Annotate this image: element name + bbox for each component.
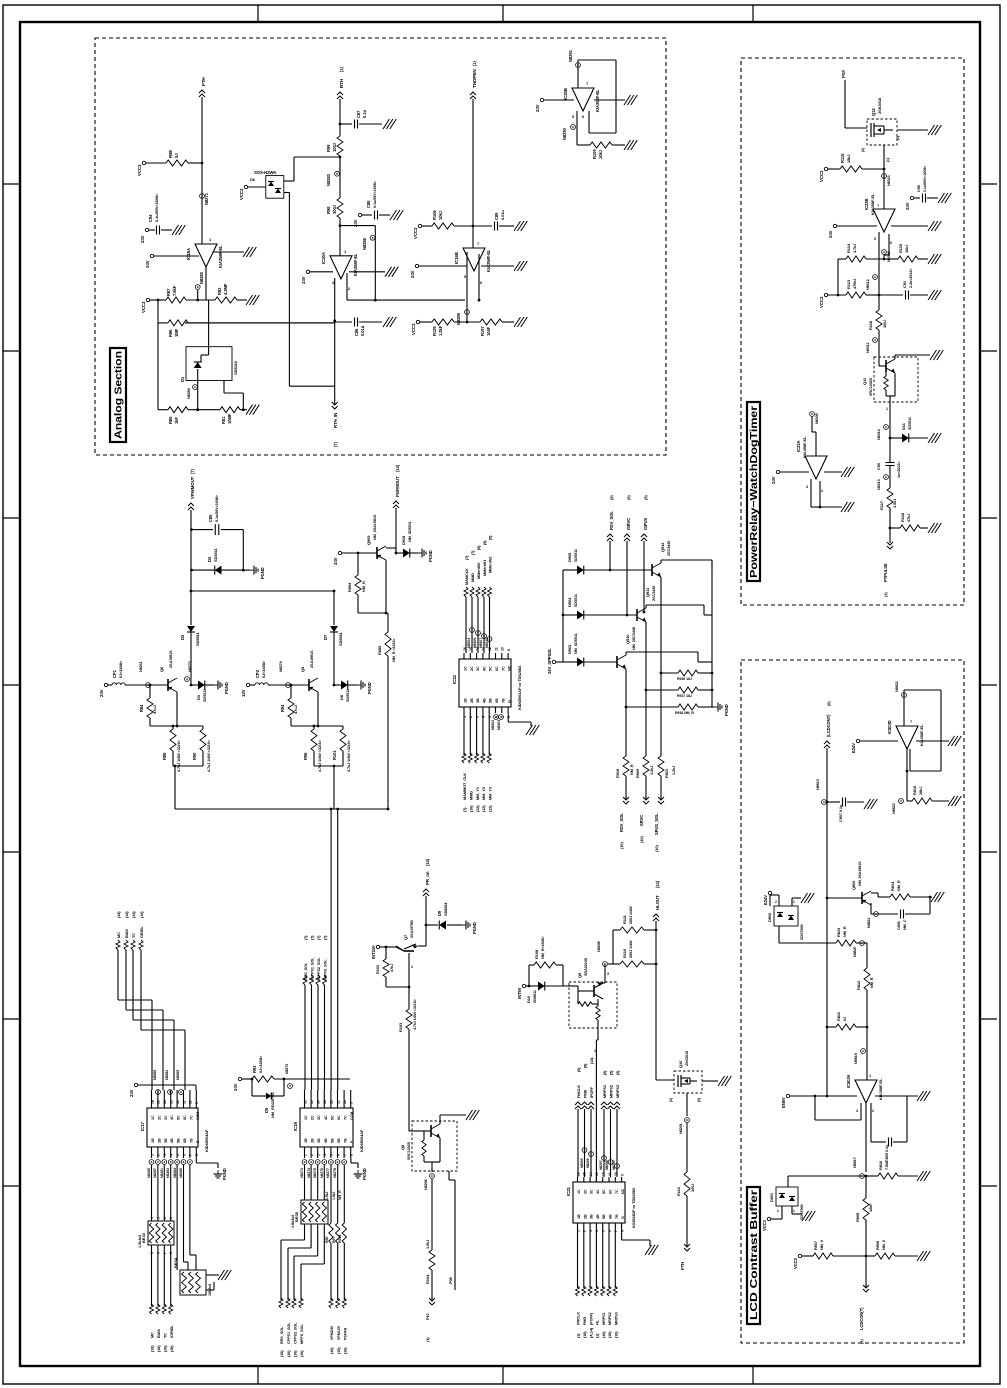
svg-text:1B: 1B <box>464 698 468 703</box>
ground PGND D3 <box>214 684 218 686</box>
node N8291 <box>576 63 581 68</box>
ground D11 <box>928 433 935 443</box>
svg-text:2: 2 <box>157 1154 161 1156</box>
node N8818 <box>866 1026 869 1029</box>
svg-text:24V: 24V <box>905 202 910 210</box>
svg-text:BIAS: BIAS <box>124 929 129 938</box>
svg-text:12kF: 12kF <box>868 1203 873 1212</box>
svg-text:N8280: N8280 <box>187 388 191 399</box>
wire 24V to IC23A <box>776 470 779 473</box>
resistor R108 <box>528 965 530 986</box>
svg-text:IPOFF: IPOFF <box>589 1086 594 1098</box>
svg-text:24V: 24V <box>828 230 833 238</box>
svg-text:BR34: BR34 <box>173 1257 178 1268</box>
wire IC23A pin loop <box>810 479 812 507</box>
svg-text:R111: R111 <box>622 914 627 924</box>
terminal VCC3 D801 <box>767 1217 770 1220</box>
svg-text:NM_R: NM_R <box>361 581 366 592</box>
capacitor C805 <box>888 1138 890 1147</box>
svg-text:1.5kJ: 1.5kJ <box>892 499 897 508</box>
ground C91 <box>928 290 935 300</box>
svg-text:MMenW0: MMenW0 <box>476 563 481 579</box>
svg-text:R86: R86 <box>168 329 173 337</box>
transistor Q802 <box>826 897 829 900</box>
svg-text:SRA2210S: SRA2210S <box>584 957 588 976</box>
svg-text:N8287: N8287 <box>153 1168 157 1178</box>
svg-text:(10): (10) <box>615 1331 619 1338</box>
wire Q7 base <box>408 953 410 1009</box>
svg-text:10: 10 <box>189 1100 193 1104</box>
svg-text:12: 12 <box>488 647 492 651</box>
svg-text:FTH: FTH <box>680 1262 685 1270</box>
wire Q5 collector <box>317 692 319 726</box>
svg-text:5C: 5C <box>330 1115 334 1120</box>
svg-text:PS#: PS# <box>841 69 846 78</box>
resistor R86 <box>158 322 168 324</box>
svg-text:Q11: Q11 <box>862 377 867 385</box>
wire Q911 collector <box>645 605 647 608</box>
svg-text:1.8kJx4: 1.8kJx4 <box>291 1214 295 1228</box>
svg-text:1: 1 <box>576 1230 580 1232</box>
svg-text:ICPPS2_SOL: ICPPS2_SOL <box>317 957 321 980</box>
svg-text:12V: 12V <box>241 689 246 697</box>
svg-text:11: 11 <box>494 647 498 651</box>
svg-text:N8272: N8272 <box>285 1064 289 1074</box>
svg-text:15kJ: 15kJ <box>846 155 851 164</box>
transistor Q911 <box>636 609 638 621</box>
node N8817 <box>860 1174 865 1179</box>
svg-text:(10): (10) <box>330 1347 334 1354</box>
connector P10 <box>429 1302 435 1305</box>
svg-text:R916 18J: R916 18J <box>677 677 692 681</box>
node N8304 group <box>470 628 475 633</box>
connector ISRVC top <box>624 534 630 537</box>
svg-text:N8271: N8271 <box>204 192 209 205</box>
svg-text:LCDCON(T): LCDCON(T) <box>859 1307 864 1330</box>
wire R99 to SOS box <box>294 156 340 158</box>
svg-text:0.1u/50V<1608>: 0.1u/50V<1608> <box>373 180 377 208</box>
svg-text:4.7uJ 1/4W <3216>: 4.7uJ 1/4W <3216> <box>318 739 322 772</box>
resistor R917 <box>678 687 698 693</box>
resistor R103 <box>406 1009 412 1029</box>
frame tick right 6 <box>980 1018 997 1020</box>
wire Q912 collector <box>660 560 662 563</box>
svg-text:KID65004AF: KID65004AF <box>204 1129 209 1152</box>
wire N8817 to D801 <box>788 1175 866 1177</box>
svg-text:KID65004AF: KID65004AF <box>359 1129 364 1152</box>
resistor Q8 internal <box>423 1131 425 1140</box>
svg-text:9: 9 <box>620 1174 624 1176</box>
resistor R88 <box>142 161 145 164</box>
svg-text:3: 3 <box>332 281 334 285</box>
wires RRS group down <box>304 985 306 1090</box>
resistor R813 <box>779 942 836 944</box>
svg-text:2: 2 <box>872 1109 874 1113</box>
frame tick left 5 <box>3 851 20 853</box>
MOSFET Q10 <box>677 1075 679 1087</box>
svg-text:N8291: N8291 <box>568 49 573 62</box>
svg-text:(10): (10) <box>170 1345 174 1352</box>
svg-text:(10): (10) <box>293 1350 297 1357</box>
svg-text:24V: 24V <box>410 270 415 278</box>
svg-text:IC19: IC19 <box>293 1121 298 1131</box>
svg-text:R814: R814 <box>890 881 895 891</box>
svg-text:D10: D10 <box>526 995 531 1003</box>
svg-text:2B: 2B <box>470 698 474 703</box>
svg-text:0.01u: 0.01u <box>500 210 505 220</box>
svg-text:2SK3018: 2SK3018 <box>877 97 882 114</box>
svg-text:R116: R116 <box>868 320 873 330</box>
svg-text:7C: 7C <box>501 666 505 671</box>
svg-text:3: 3 <box>475 716 479 718</box>
frame tick left 7 <box>3 1185 20 1187</box>
svg-text:2: 2 <box>583 1230 587 1232</box>
svg-text:0.1u/50V<1608>: 0.1u/50V<1608> <box>923 166 927 192</box>
svg-text:R94: R94 <box>280 704 285 712</box>
op-amp IC16B <box>463 248 485 271</box>
diode D905 <box>563 569 577 571</box>
wire R103 to Q8 <box>408 1029 410 1131</box>
ground C87 <box>383 119 390 129</box>
resistor R98 <box>339 157 341 198</box>
resistor R854 <box>357 553 359 575</box>
svg-text:VFM12V: VFM12V <box>337 1325 341 1340</box>
ground C89 <box>514 221 521 231</box>
svg-text:(5): (5) <box>626 495 631 500</box>
svg-text:10kJ: 10kJ <box>904 245 909 253</box>
svg-text:13: 13 <box>482 647 486 651</box>
svg-text:IC16B: IC16B <box>454 252 459 264</box>
svg-text:1C: 1C <box>304 1115 308 1120</box>
resistor Q11 internal <box>885 366 887 376</box>
svg-text:N8303: N8303 <box>497 720 501 730</box>
svg-text:MAMMOT_CLK: MAMMOT_CLK <box>462 773 467 800</box>
svg-text:GRIDL: GRIDL <box>139 926 144 938</box>
svg-text:CP2: CP2 <box>255 669 260 678</box>
wires to bottom connectors <box>625 776 627 800</box>
wire to Q10 <box>655 964 657 1080</box>
svg-text:D11: D11 <box>901 422 906 430</box>
svg-text:1: 1 <box>594 1049 596 1053</box>
node N8283 <box>335 171 340 176</box>
svg-text:MM_Y1: MM_Y1 <box>475 786 480 800</box>
node N8289 <box>465 310 470 315</box>
svg-text:12: 12 <box>330 1100 334 1104</box>
connector RSV_SOL top <box>607 534 613 537</box>
svg-text:3C: 3C <box>317 1115 321 1120</box>
svg-text:(10): (10) <box>608 1331 612 1338</box>
capacitor C90 <box>910 196 913 199</box>
diode D1 <box>194 362 202 368</box>
svg-text:MAMCLK: MAMCLK <box>464 568 469 585</box>
op-amp IC23B <box>873 209 895 232</box>
ground R109 <box>624 140 631 150</box>
svg-text:N8208: N8208 <box>597 941 601 952</box>
svg-text:1.5kJx4: 1.5kJx4 <box>138 1234 142 1248</box>
node N8261 <box>146 683 151 688</box>
svg-text:3B: 3B <box>317 1138 321 1143</box>
frame tick left 4 <box>3 684 20 686</box>
svg-text:2SA1981S: 2SA1981S <box>310 650 314 668</box>
svg-text:TC: TC <box>163 1333 168 1338</box>
svg-text:Q911: Q911 <box>645 587 650 597</box>
svg-text:PR_on: PR_on <box>425 871 430 885</box>
svg-text:Q6: Q6 <box>159 666 164 672</box>
ground D801 <box>791 1206 793 1214</box>
diode D11 <box>889 437 892 440</box>
svg-text:Q912: Q912 <box>660 542 665 552</box>
terminal 24V IC17 <box>134 1083 137 1086</box>
svg-text:(10): (10) <box>287 1350 291 1357</box>
capacitor C86 <box>335 321 352 323</box>
svg-text:6C: 6C <box>609 1189 613 1194</box>
svg-text:N8296: N8296 <box>586 1158 590 1168</box>
svg-text:IC803D: IC803D <box>887 720 892 734</box>
wire IC17 ground <box>195 1158 197 1163</box>
svg-text:7: 7 <box>877 204 879 208</box>
wire loop left vertical <box>174 765 177 768</box>
wire PR_on down <box>425 896 427 946</box>
svg-text:SD5511: SD5511 <box>195 631 200 646</box>
ground PGND D8 <box>357 684 361 686</box>
wire Q11 emitter <box>894 373 896 396</box>
frame tick right 3 <box>980 517 997 519</box>
svg-text:R115: R115 <box>840 153 845 163</box>
svg-text:4C: 4C <box>324 1115 328 1120</box>
wire node to IC18A <box>201 163 203 244</box>
wire IC25B feedback <box>577 68 579 88</box>
svg-text:N8302: N8302 <box>491 720 495 730</box>
svg-text:4.7uJ 1/4W <3216>: 4.7uJ 1/4W <3216> <box>207 739 211 772</box>
wire VCC3 to D6 <box>244 185 247 188</box>
diode D10 <box>533 985 538 987</box>
wire IC23B gnd <box>891 225 928 227</box>
ground IC21 <box>645 1245 652 1255</box>
svg-text:R108: R108 <box>534 949 539 959</box>
connector ISPUS top <box>641 534 647 537</box>
node N8305 <box>810 412 815 417</box>
wire RTH down <box>339 99 341 124</box>
svg-text:N8823: N8823 <box>892 803 896 814</box>
svg-text:PMD: PMD <box>583 1089 588 1098</box>
resistor R855 <box>385 612 388 615</box>
svg-text:1C: 1C <box>464 666 468 671</box>
node group N8295-N8300 <box>582 1148 587 1153</box>
resistor network BR34 <box>180 1270 206 1295</box>
svg-text:100J: 100J <box>332 142 337 152</box>
svg-text:R810: R810 <box>878 1160 883 1170</box>
svg-text:5: 5 <box>874 237 876 241</box>
svg-text:R110: R110 <box>622 948 627 958</box>
svg-text:1: 1 <box>150 1154 154 1156</box>
svg-text:7: 7 <box>189 1154 193 1156</box>
svg-text:10kJ: 10kJ <box>598 149 603 159</box>
frame tick left 1 <box>3 183 20 185</box>
svg-text:3B: 3B <box>590 1214 594 1219</box>
svg-text:(LCDCONT): (LCDCONT) <box>826 714 831 737</box>
svg-text:15: 15 <box>310 1100 314 1104</box>
svg-text:N8273: N8273 <box>300 1168 304 1178</box>
wire 24V to IC23B <box>833 224 836 227</box>
svg-text:KIA358F-EL: KIA358F-EL <box>919 724 924 746</box>
svg-text:(14): (14) <box>590 1057 594 1064</box>
capacitor C90b <box>886 462 895 464</box>
svg-text:C805 0.1u: C805 0.1u <box>884 1144 889 1162</box>
svg-text:15: 15 <box>469 647 473 651</box>
svg-text:0.01u: 0.01u <box>360 325 365 336</box>
svg-text:SD5511: SD5511 <box>346 689 350 702</box>
svg-text:C91: C91 <box>902 280 907 288</box>
svg-text:R914: R914 <box>338 1235 342 1243</box>
terminal E24V Q802 <box>768 891 771 894</box>
node N8208 <box>603 962 608 967</box>
svg-text:7.5kF: 7.5kF <box>172 285 177 296</box>
svg-text:(12): (12) <box>488 805 492 812</box>
connector group MRPS1 MRPS2 MRPS3 <box>601 1102 607 1105</box>
svg-text:(10): (10) <box>619 842 624 849</box>
frame tick top 3 <box>752 5 754 22</box>
svg-text:2C: 2C <box>583 1189 587 1194</box>
resistor R812 <box>866 943 868 968</box>
resistor R82 <box>215 297 237 303</box>
svg-text:5: 5 <box>464 275 466 279</box>
ground R814 <box>931 892 938 902</box>
svg-text:N8284: N8284 <box>173 1168 177 1178</box>
svg-text:N8310: N8310 <box>485 638 489 648</box>
svg-text:5B: 5B <box>177 1138 181 1143</box>
svg-text:13: 13 <box>170 1100 174 1104</box>
frame tick right 7 <box>980 1185 997 1187</box>
resistor R110 <box>608 963 620 965</box>
svg-text:N8206: N8206 <box>424 1179 428 1190</box>
diode D9 <box>425 924 428 927</box>
svg-text:PGND: PGND <box>428 550 433 562</box>
diode D904 <box>562 614 565 617</box>
wire VCC3 branch down <box>157 299 160 302</box>
dual diode D801 box <box>776 1187 798 1206</box>
svg-text:PGND: PGND <box>224 682 229 694</box>
wires IC22 bottom connectors <box>463 713 465 755</box>
diode D5 <box>251 1078 254 1081</box>
resistor R94 <box>290 685 292 698</box>
svg-text:4: 4 <box>170 1154 174 1156</box>
connector group MAMCLK MMD MMenW0 MMenW1 MMenW2 <box>464 587 468 597</box>
svg-text:Analog Section: Analog Section <box>113 351 125 439</box>
svg-text:C87: C87 <box>356 110 361 118</box>
Analog Section dashed box <box>95 38 666 455</box>
node N8272 <box>288 1084 293 1089</box>
wire IC803A output <box>865 1103 867 1172</box>
svg-text:8: 8 <box>350 1154 354 1156</box>
svg-text:3B: 3B <box>164 1138 168 1143</box>
svg-text:(10): (10) <box>151 1345 155 1352</box>
resistor R919 <box>623 756 629 776</box>
op-amp IC25B <box>572 88 594 111</box>
svg-text:HL: HL <box>596 1319 600 1325</box>
svg-text:MRPS2: MRPS2 <box>608 1312 612 1325</box>
wire IC18A gnd <box>213 251 244 253</box>
terminal INT24V <box>376 945 379 948</box>
svg-text:N8305: N8305 <box>473 638 477 648</box>
svg-text:1: 1 <box>169 1217 173 1219</box>
node N8823 <box>899 799 904 804</box>
wire emitters down <box>660 673 662 756</box>
svg-text:2C: 2C <box>157 1115 161 1120</box>
IC21 pin stubs top <box>577 1177 579 1182</box>
svg-text:LCD Contrast Buffer: LCD Contrast Buffer <box>749 1190 760 1320</box>
svg-text:CPPS2_SOL: CPPS2_SOL <box>293 1322 297 1344</box>
svg-text:(10): (10) <box>639 836 644 843</box>
svg-text:N8297: N8297 <box>599 1160 603 1170</box>
node N8290 <box>571 125 576 130</box>
svg-text:(10): (10) <box>300 1350 304 1357</box>
wire IC803D feedback <box>903 698 905 726</box>
svg-text:CP1: CP1 <box>112 669 117 678</box>
svg-text:(10): (10) <box>164 1345 168 1352</box>
svg-text:C807 0.1u: C807 0.1u <box>838 804 843 822</box>
svg-text:0.1u/50V<1608>: 0.1u/50V<1608> <box>154 193 159 222</box>
transistor Q7 <box>418 945 426 947</box>
ground R815 <box>948 796 955 806</box>
wire ISRVC down <box>626 541 628 615</box>
wire ISPUS down <box>643 541 645 612</box>
wire IC16B pins loop <box>466 252 468 312</box>
svg-text:(14): (14) <box>125 911 129 918</box>
svg-text:EN5V: EN5V <box>781 1097 786 1108</box>
node N8274 <box>286 683 291 688</box>
svg-text:VCC3: VCC3 <box>411 323 416 335</box>
svg-text:IC22: IC22 <box>452 674 457 684</box>
svg-text:IC17: IC17 <box>140 1121 145 1131</box>
svg-text:R809: R809 <box>855 1212 860 1222</box>
node N8313 <box>884 475 889 480</box>
svg-text:R98: R98 <box>326 206 331 214</box>
wire 24V to IC20A <box>306 270 309 273</box>
svg-text:PSFMOUT: PSFMOUT <box>395 476 400 497</box>
wire VPWMOUT down <box>190 510 192 591</box>
svg-text:D904: D904 <box>567 597 572 607</box>
svg-text:INT5V: INT5V <box>517 987 522 999</box>
node N8311 <box>873 338 878 343</box>
connector group RRS_SOL ICPPS1_SOL ICPPS2_SOL IMPFS_SOL <box>303 975 307 985</box>
svg-text:(7): (7) <box>190 468 195 474</box>
wire TNOPEN down <box>472 99 474 248</box>
svg-text:PMD: PMD <box>583 1317 587 1325</box>
svg-text:6B: 6B <box>337 1138 341 1143</box>
svg-text:1: 1 <box>869 1074 871 1078</box>
svg-text:(14): (14) <box>132 911 136 918</box>
svg-text:(7): (7) <box>333 441 338 447</box>
svg-text:47uJ: 47uJ <box>152 705 157 714</box>
capacitor C94 <box>145 228 148 231</box>
svg-text:N8280: N8280 <box>199 271 204 284</box>
svg-text:7C: 7C <box>189 1115 193 1120</box>
MOSFET Q10 dashed box <box>674 1071 702 1093</box>
svg-text:SDS7000: SDS7000 <box>800 1204 804 1220</box>
svg-text:1.5kJ: 1.5kJ <box>325 1192 329 1200</box>
svg-text:RSV_SOL: RSV_SOL <box>619 813 624 832</box>
svg-text:4: 4 <box>323 1154 327 1156</box>
svg-text:IC23A: IC23A <box>796 441 801 452</box>
wire Q12 to ground <box>897 129 928 131</box>
svg-text:200J 1/4W: 200J 1/4W <box>629 940 633 958</box>
svg-text:3: 3 <box>589 1230 593 1232</box>
svg-text:N8307: N8307 <box>479 638 483 648</box>
svg-text:MMenW1: MMenW1 <box>482 559 487 576</box>
svg-text:(5): (5) <box>697 1098 701 1102</box>
resistor R909 <box>643 756 649 776</box>
svg-text:SRVC: SRVC <box>639 815 644 826</box>
